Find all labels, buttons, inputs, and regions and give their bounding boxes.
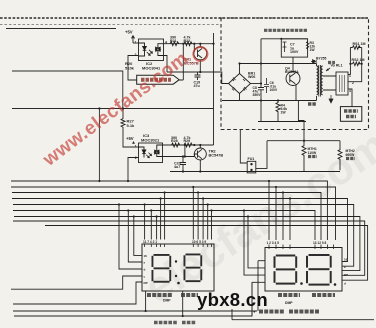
snubber box C7: [280, 38, 282, 40]
resistor R28: [172, 143, 180, 147]
svg-text:3: 3: [349, 89, 351, 93]
svg-text:1W: 1W: [281, 111, 287, 115]
wire pin5 stub down: [164, 56, 168, 73]
svg-text:660W: 660W: [346, 153, 356, 157]
reset pennant tag: [137, 75, 180, 84]
bus taps to left display top: [145, 187, 212, 240]
heater top rail: [267, 140, 340, 142]
capacitor C8: [258, 39, 264, 122]
title blob 振荡器和继电器开关: [264, 29, 307, 32]
7-seg digit 1: [152, 254, 172, 283]
MTH1 heater resistor: [302, 141, 306, 172]
svg-text:4.7k: 4.7k: [184, 136, 191, 140]
transistor TR1: [194, 44, 207, 72]
resistor R3 right of box: [306, 42, 308, 50]
wires: top area: [0, 18, 369, 130]
bus line I: [45, 226, 368, 281]
bus line E: [13, 205, 354, 267]
wire IC3 pin2 down to bus: [128, 158, 139, 182]
svg-text:510k: 510k: [125, 66, 135, 71]
svg-text:16: 16: [144, 254, 148, 258]
svg-text:*: *: [254, 310, 256, 315]
relay RL1 coil box: [336, 72, 348, 95]
transistor Q4: [286, 57, 300, 100]
tag text blob: [141, 78, 171, 82]
bus line H: [13, 221, 365, 275]
svg-text:16: 16: [344, 258, 348, 262]
sensor container box: [340, 107, 361, 122]
sensor resistor RS2: [353, 62, 361, 66]
wire left drop to bus: [98, 109, 100, 182]
diode D5 BY255: [311, 60, 316, 64]
oscillator bottom rail: [258, 121, 306, 123]
top pin ticks right display: [269, 245, 334, 250]
svg-text:2: 2: [352, 81, 354, 85]
-DC rail: [222, 100, 317, 102]
resistor R27 vertical: [121, 109, 139, 148]
opto-isolator IC2 box: [139, 39, 164, 61]
left display side taps: [119, 205, 142, 270]
wire tag tap vertical: [179, 44, 183, 80]
svg-text:1M: 1M: [361, 42, 366, 46]
capacitor C20: [180, 157, 186, 172]
svg-text:13 12 9 8: 13 12 9 8: [313, 241, 327, 245]
node dots rail2: [184, 144, 186, 146]
svg-text:RS1: RS1: [353, 42, 360, 46]
wire upper left loop: [12, 71, 123, 109]
svg-text:4u7: 4u7: [174, 165, 180, 169]
bus line D: [12, 199, 348, 262]
bus line B: [11, 187, 336, 240]
bus line A: [11, 181, 327, 240]
DP dots right: [300, 282, 303, 285]
bottom rail 2: [170, 171, 247, 173]
red highlight ring (watermark): [193, 47, 207, 61]
svg-text:5.1k: 5.1k: [127, 123, 136, 128]
fuse wire right: [256, 141, 267, 169]
svg-text:1 2 3 4 5: 1 2 3 4 5: [267, 241, 280, 245]
MTH1 link up: [298, 101, 304, 141]
caption bottom center: [154, 321, 196, 325]
wire from osc to fuse: [240, 130, 247, 164]
bottom right long wire: [232, 309, 374, 320]
bus line F: [13, 211, 315, 241]
svg-text:DP: DP: [144, 281, 148, 285]
transformer T1: [317, 64, 337, 101]
annotation arrow Vo RL1: [326, 68, 330, 71]
svg-text:100V: 100V: [270, 88, 279, 92]
svg-text:390: 390: [170, 36, 176, 40]
svg-text:4.7k: 4.7k: [184, 36, 191, 40]
display bottom pin drops: [145, 291, 147, 311]
bottom rail 1: [13, 282, 142, 304]
capacitor C19: [195, 72, 201, 80]
dashed box oscillator/relay: [221, 18, 369, 130]
long vertical wire: [213, 33, 215, 145]
bridge bottom to -rail: [239, 94, 241, 101]
resistor R4 vertical: [276, 101, 280, 115]
resistor R29: [184, 143, 192, 147]
svg-text:2: 2: [135, 156, 137, 160]
wire long top-left: [6, 28, 116, 30]
+DC rail: [240, 63, 317, 65]
svg-text:ybx8.cn: ybx8.cn: [197, 289, 268, 310]
bridge right node wire: [251, 83, 262, 85]
bottom rail 2: [13, 310, 257, 312]
bus line C: [12, 193, 321, 241]
top pin ticks left display: [145, 244, 212, 248]
+5V supply arrow: [132, 36, 135, 44]
RS connect verticals: [350, 48, 361, 64]
svg-text:+5V: +5V: [125, 30, 133, 35]
svg-text:DMP: DMP: [163, 299, 171, 303]
wire pin1: [133, 42, 139, 44]
svg-text:MOC3021: MOC3021: [141, 138, 160, 143]
right display left-side taps: [244, 211, 265, 317]
bridge rectifier BR1: [229, 64, 262, 101]
bottom rail circuit1: [167, 72, 229, 84]
svg-text:4: 4: [165, 41, 167, 45]
7-seg digit 3: [274, 255, 298, 285]
svg-text:10 6 5 3 9: 10 6 5 3 9: [192, 240, 206, 244]
svg-text:47u: 47u: [194, 84, 200, 88]
bus line G: [14, 217, 360, 271]
svg-text:d: d: [144, 268, 146, 272]
watermark gray elecfans diagonal: [136, 120, 376, 313]
svg-text:d: d: [344, 282, 346, 286]
bottom rail 3: [14, 282, 252, 316]
svg-text:+5V: +5V: [126, 136, 134, 141]
node junctions rail: [182, 43, 201, 45]
svg-text:DP: DP: [344, 273, 348, 277]
svg-text:2: 2: [135, 53, 137, 57]
svg-text:390: 390: [171, 136, 177, 140]
svg-text:BC547B: BC547B: [209, 154, 224, 158]
svg-text:350V: 350V: [253, 93, 262, 97]
transistor TR2: [194, 145, 206, 172]
svg-text:1W: 1W: [310, 48, 316, 52]
svg-text:11 7 4 2 1: 11 7 4 2 1: [143, 240, 157, 244]
long bottom-left wire: [11, 276, 142, 289]
fuse FU1 box: [247, 161, 256, 173]
svg-text:1: 1: [135, 41, 137, 45]
opto IC3 internals: [139, 145, 163, 158]
wire IC3 lower rail: [163, 156, 195, 158]
oscillator top rail: [261, 38, 308, 40]
svg-text:BY255: BY255: [316, 57, 326, 61]
wire R junction down: [184, 145, 186, 157]
svg-text:W06: W06: [248, 75, 255, 79]
MTH2 heater resistor: [338, 141, 342, 171]
opto IC2 internals: LED + photo-triac: [139, 43, 164, 56]
7-seg digit 4: [306, 254, 332, 286]
svg-text:DMP: DMP: [285, 301, 293, 305]
wire pin2 to reset tag: [128, 56, 139, 81]
faint dashed line 2: [0, 24, 221, 26]
wire base TR1: [193, 44, 195, 52]
colon dots: [175, 260, 177, 262]
wire output rail: [164, 43, 214, 45]
resistor R22: [184, 42, 192, 46]
svg-text:100V: 100V: [290, 50, 299, 54]
down arrow marker: [329, 95, 333, 103]
red elecfans watermark: [39, 48, 193, 171]
svg-text:RS2: RS2: [352, 58, 359, 62]
dashed top separator line: [0, 17, 369, 19]
heater bottom rail: [247, 171, 340, 173]
svg-text:1: 1: [349, 74, 351, 78]
bus taps to right display top: [269, 181, 290, 240]
svg-text:FU1: FU1: [248, 157, 255, 161]
labels below left display: [147, 293, 172, 297]
capacitor C6: [264, 78, 269, 93]
svg-text:110W: 110W: [308, 151, 317, 155]
feedback label blob: [308, 102, 316, 105]
svg-text:1: 1: [135, 145, 137, 149]
svg-text:BU508A: BU508A: [285, 70, 299, 74]
bridge top to +rail: [239, 64, 241, 74]
opto-isolator IC3 box: [139, 143, 163, 163]
resistor R21: [170, 42, 179, 46]
wire IC3 output rail: [163, 144, 214, 146]
sensor resistor RS1: [353, 46, 361, 50]
7-seg digit 2: [184, 254, 203, 283]
labels below right display: [278, 293, 300, 297]
relay pin wires: [348, 48, 362, 107]
wire mid horizontal: [12, 108, 214, 110]
